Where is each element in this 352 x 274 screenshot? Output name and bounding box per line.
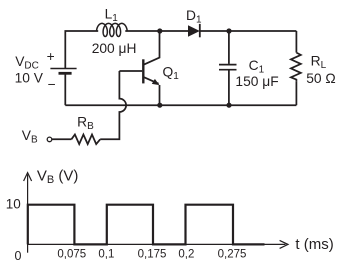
svg-text:C1: C1 (249, 58, 265, 76)
resistor RL zigzag (291, 53, 301, 82)
transistor Q1 collector (144, 31, 160, 65)
svg-text:−: − (48, 77, 56, 92)
capacitor C1 bottom lead (228, 70, 230, 105)
svg-text:Q1: Q1 (163, 65, 180, 83)
svg-text:RB: RB (77, 115, 94, 133)
transistor Q1 emitter (144, 77, 159, 84)
wire L1 to D1 anode (125, 30, 188, 32)
capacitor C1 top lead (228, 31, 230, 64)
VB square wave (28, 205, 265, 245)
wire right column bottom (295, 81, 297, 105)
junction node emitter/bottom (157, 103, 162, 108)
diode D1 (188, 24, 201, 37)
svg-text:0,175: 0,175 (138, 248, 167, 260)
svg-text:0,075: 0,075 (57, 248, 86, 260)
svg-text:150 μF: 150 μF (235, 74, 278, 89)
wire top-left: battery to L1 (65, 31, 98, 68)
wire right column top (295, 31, 297, 53)
svg-text:0,275: 0,275 (218, 248, 247, 260)
svg-text:VB (V): VB (V) (37, 167, 79, 186)
junction node collector/top (157, 28, 162, 33)
svg-text:L1: L1 (105, 6, 119, 24)
battery VDC plates (50, 68, 76, 70)
waveform x-axis (28, 243, 286, 245)
svg-text:0,2: 0,2 (178, 248, 194, 260)
wire VB terminal to RB (52, 138, 72, 140)
svg-text:0,1: 0,1 (98, 248, 114, 260)
inductor L1 (97, 23, 128, 36)
svg-text:200 μH: 200 μH (92, 41, 137, 56)
capacitor C1 plates (219, 64, 237, 66)
transistor Q1 emitter arrowhead (152, 79, 160, 85)
wire base riser with hop over bottom rail (100, 71, 126, 139)
svg-text:VDC: VDC (15, 54, 39, 72)
svg-text:50 Ω: 50 Ω (306, 71, 336, 86)
svg-text:t (ms): t (ms) (295, 236, 333, 253)
svg-text:0: 0 (15, 249, 22, 263)
transistor Q1 base lead (119, 70, 142, 72)
svg-text:RL: RL (311, 53, 327, 71)
junction node C1/bottom (226, 103, 231, 108)
waveform y-axis (27, 175, 29, 253)
wire bottom rail (65, 104, 296, 106)
svg-text:VB: VB (22, 128, 38, 146)
wire battery bottom (64, 74, 66, 106)
x-axis arrowhead (280, 240, 288, 248)
transistor Q1 emitter lead down (159, 85, 161, 105)
terminal circle VB (47, 137, 52, 142)
resistor RB zigzag (71, 135, 100, 145)
svg-text:10 V: 10 V (15, 71, 44, 86)
svg-text:10: 10 (6, 197, 21, 212)
wire D1 cathode to top-right corner (200, 30, 297, 32)
junction node C1/top (226, 28, 231, 33)
transistor Q1 base bar (142, 59, 144, 83)
svg-text:+: + (47, 49, 55, 64)
y-axis arrowhead (24, 173, 32, 181)
svg-text:D1: D1 (186, 8, 202, 26)
